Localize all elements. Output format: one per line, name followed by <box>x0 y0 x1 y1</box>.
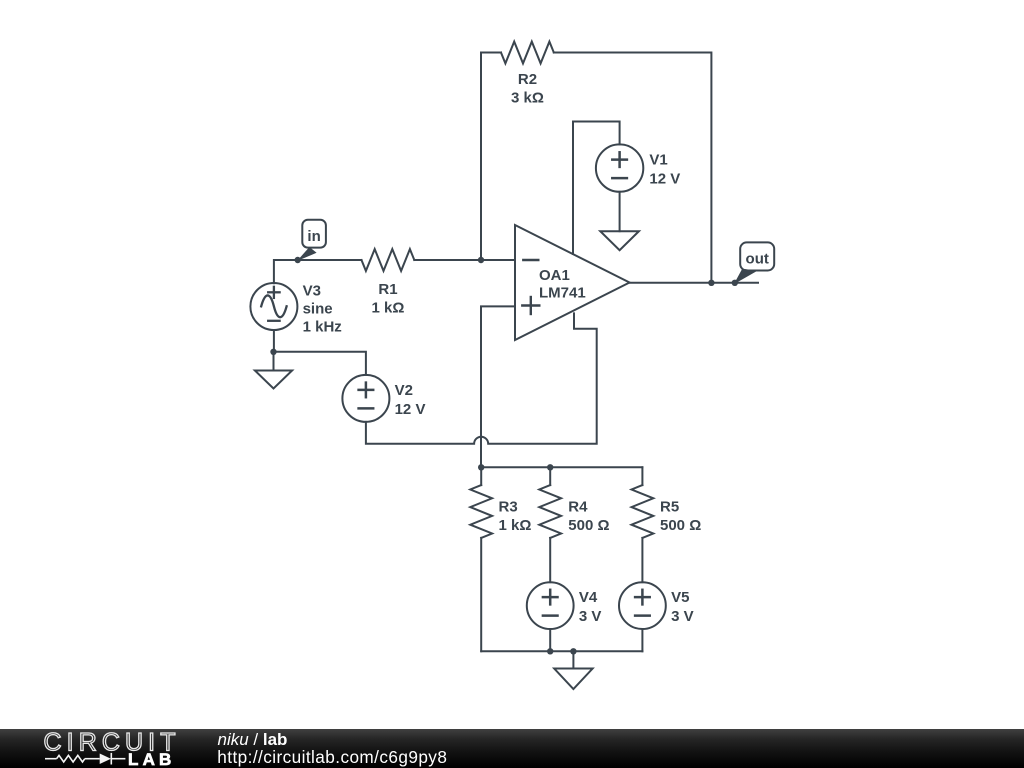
wire supply rail top <box>481 466 642 468</box>
op-amp plus input symbol <box>522 297 539 314</box>
node out pointer <box>734 269 757 285</box>
junction node dot out tap <box>732 280 738 286</box>
resistor R3 <box>470 485 492 538</box>
V3 sine symbol <box>261 295 286 317</box>
wire R5 top lead <box>641 467 643 485</box>
ground symbol for V1 <box>600 231 639 250</box>
resistor R5 <box>632 485 654 538</box>
wire ground node right to V2 top <box>274 352 366 375</box>
svg-text:1 kHz: 1 kHz <box>303 319 342 336</box>
svg-text:3 V: 3 V <box>671 608 694 625</box>
svg-text:V2: V2 <box>395 382 413 399</box>
wire V3 bottom to ground node <box>273 330 275 352</box>
junction node dot bottom V4 <box>547 648 553 654</box>
svg-text:R4: R4 <box>568 499 588 516</box>
V4 minus symbol <box>543 614 558 617</box>
wire op-amp V+ pin to V1 <box>573 122 620 255</box>
svg-text:V5: V5 <box>671 589 689 606</box>
resistor R2 <box>501 42 554 64</box>
node flag out box <box>740 242 774 270</box>
svg-text:3 V: 3 V <box>579 608 602 625</box>
wire op-amp output to out stub <box>630 282 759 284</box>
ground symbol for V3 <box>273 352 275 371</box>
voltage source V3 circle <box>250 283 297 330</box>
V5 minus symbol <box>635 614 650 617</box>
resistor R4 <box>539 485 561 538</box>
logo resistor-diode glyph <box>45 753 125 765</box>
op-amp U1 triangle <box>515 225 630 340</box>
junction node dot in tap <box>295 257 301 263</box>
wire R4 top lead <box>549 467 551 485</box>
svg-text:LAB: LAB <box>128 750 176 768</box>
svg-text:500 Ω: 500 Ω <box>568 517 609 534</box>
svg-text:1 kΩ: 1 kΩ <box>372 300 405 317</box>
V4 plus symbol <box>543 590 558 605</box>
svg-text:500 Ω: 500 Ω <box>660 517 701 534</box>
junction node dot rail R4 <box>547 464 553 470</box>
wire R2 right to output vertical <box>554 53 712 283</box>
wire op-amp non-inverting input down <box>481 306 515 467</box>
wire V2 bottom to op-amp V- pin with hop over node wire <box>366 313 597 443</box>
junction node dot rail left <box>478 464 484 470</box>
V1 plus symbol <box>612 152 627 167</box>
wire R1 right to op-amp inverting input <box>414 259 515 261</box>
wire V3 top to R1 left <box>274 260 362 283</box>
svg-text:3 kΩ: 3 kΩ <box>511 90 544 107</box>
svg-text:LM741: LM741 <box>539 285 586 302</box>
wire V5 bottom to rail <box>641 629 643 651</box>
junction node dot bottom ground <box>570 648 576 654</box>
svg-text:R2: R2 <box>518 71 537 88</box>
wire R4 bottom to V4 <box>549 538 551 582</box>
ground symbol bottom <box>572 651 574 668</box>
V3 minus symbol <box>268 320 279 322</box>
wire bottom rail <box>481 650 642 652</box>
voltage source V2 circle <box>342 375 389 422</box>
node in pointer <box>297 247 317 261</box>
node flag in box <box>302 220 326 248</box>
wire R5 bottom to V5 <box>641 538 643 582</box>
svg-text:12 V: 12 V <box>649 171 680 188</box>
voltage source V5 circle <box>619 582 666 629</box>
svg-text:out: out <box>746 251 769 268</box>
V2 minus symbol <box>359 407 374 410</box>
wire R3 bottom to rail <box>480 538 482 651</box>
svg-text:in: in <box>307 228 320 245</box>
svg-text:R1: R1 <box>378 281 397 298</box>
wire V1 bottom to ground <box>619 192 621 231</box>
V1 minus symbol <box>612 177 627 180</box>
voltage source V4 circle <box>527 582 574 629</box>
footer bar <box>0 729 1024 768</box>
wire R3 top lead <box>480 467 482 485</box>
V3 plus symbol <box>268 287 279 298</box>
junction node dot V3 ground <box>270 349 276 355</box>
svg-text:R3: R3 <box>499 499 518 516</box>
op-amp minus input symbol <box>523 259 538 261</box>
svg-text:V3: V3 <box>303 283 321 300</box>
voltage source V1 circle <box>596 144 643 191</box>
svg-text:sine: sine <box>303 301 333 318</box>
V5 plus symbol <box>635 590 650 605</box>
svg-text:R5: R5 <box>660 499 679 516</box>
svg-text:1 kΩ: 1 kΩ <box>499 517 532 534</box>
svg-text:http://circuitlab.com/c6g9py8: http://circuitlab.com/c6g9py8 <box>217 747 447 767</box>
resistor R1 <box>362 249 415 271</box>
V2 plus symbol <box>359 383 374 398</box>
wire V4 bottom to rail <box>549 629 551 651</box>
svg-text:OA1: OA1 <box>539 267 570 284</box>
junction node dot output at feedback <box>708 280 714 286</box>
junction node dot inverting input <box>478 257 484 263</box>
logo diode triangle <box>100 754 111 765</box>
svg-text:V4: V4 <box>579 589 598 606</box>
svg-text:12 V: 12 V <box>395 401 426 418</box>
wire feedback left vertical up from inverting node <box>481 53 501 261</box>
svg-text:V1: V1 <box>649 152 667 169</box>
